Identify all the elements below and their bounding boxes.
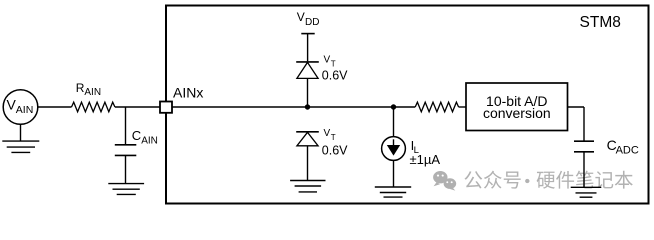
- svg-text:conversion: conversion: [483, 105, 551, 121]
- svg-text:V: V: [324, 128, 331, 139]
- svg-text:AIN: AIN: [16, 104, 34, 116]
- svg-text:T: T: [331, 60, 336, 69]
- svg-text:C: C: [132, 128, 141, 143]
- svg-text:ADC: ADC: [616, 145, 639, 157]
- svg-text:AIN: AIN: [84, 87, 101, 98]
- svg-text:STM8: STM8: [580, 14, 621, 31]
- svg-text:0.6V: 0.6V: [322, 143, 348, 157]
- svg-text:AIN: AIN: [141, 136, 158, 147]
- svg-text:0.6V: 0.6V: [322, 69, 348, 83]
- svg-text:AINx: AINx: [173, 85, 203, 101]
- svg-text:±1µA: ±1µA: [410, 152, 441, 167]
- svg-text:V: V: [297, 10, 305, 24]
- svg-text:DD: DD: [305, 17, 319, 28]
- svg-text:T: T: [331, 133, 336, 142]
- svg-text:V: V: [324, 55, 331, 66]
